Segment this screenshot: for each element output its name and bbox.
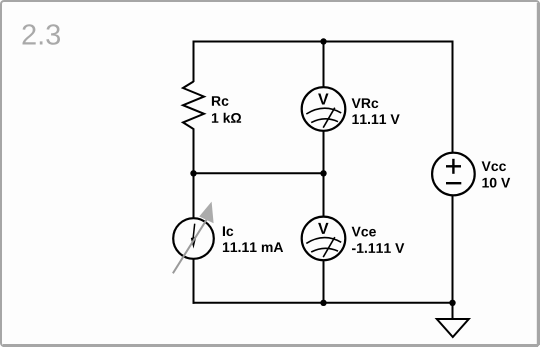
Vce V marking [318, 223, 328, 234]
Ic gray probe arrowhead [199, 202, 213, 224]
ground [437, 303, 469, 337]
label 2.3 [23, 24, 61, 45]
node junction top middle [320, 38, 326, 44]
node junction bottom middle [320, 300, 326, 306]
wire left vertical lower [193, 259, 195, 304]
resistor value 1 kOhm [212, 113, 241, 123]
source Vcc body circle [432, 153, 475, 196]
value 11.11 V [352, 114, 399, 124]
resistor Rc label [212, 96, 229, 106]
wire middle vertical bottom [323, 260, 325, 303]
VRc V marking [318, 94, 328, 105]
ground triangle [437, 319, 469, 337]
resistor R_c zigzag [183, 82, 204, 134]
Ic current arrowhead [191, 236, 197, 248]
Vce scale arc upper [306, 238, 341, 244]
node junction mid-middle [320, 170, 326, 176]
VRc scale arc upper [306, 108, 341, 114]
Vcc minus sign bar [446, 182, 461, 184]
wire middle horizontal [194, 172, 324, 174]
wire left vertical middle [193, 133, 195, 219]
voltmeter VRc [302, 87, 346, 131]
Vce scale arc lower [311, 248, 338, 252]
voltmeter Vce [302, 217, 346, 261]
ammeter Ic [173, 202, 214, 274]
ground stub wire [452, 303, 454, 319]
wire bottom horizontal [193, 302, 453, 304]
label VRc [352, 98, 379, 108]
ammeter Ic body circle [173, 218, 214, 259]
value 10 V [482, 178, 510, 188]
Vcc plus sign horizontal bar [446, 165, 461, 167]
voltmeter Vce body circle [302, 217, 346, 261]
Vcc plus sign vertical bar [452, 159, 454, 174]
wire left vertical upper [193, 41, 195, 83]
wire top horizontal [194, 41, 453, 43]
wire right vertical upper [452, 41, 454, 154]
voltage source Vcc [432, 153, 475, 196]
Ic gray probe arrow shaft [173, 220, 207, 273]
label Ic [223, 226, 233, 236]
node junction mid-left [190, 170, 196, 176]
label Vce [352, 227, 376, 237]
VRc scale arc lower [311, 119, 338, 123]
Ic current arrow shaft [193, 224, 195, 238]
label Vcc [482, 161, 506, 171]
node junction bottom right [449, 300, 455, 306]
wire middle vertical between [323, 130, 325, 218]
value 11.11 mA [223, 242, 283, 252]
VRc needle [323, 108, 335, 128]
voltmeter VRc body circle [302, 87, 346, 131]
value -1.111 V [352, 243, 404, 253]
Vce needle [323, 237, 335, 257]
wire middle vertical top [323, 42, 325, 89]
wire right vertical lower [452, 195, 454, 303]
